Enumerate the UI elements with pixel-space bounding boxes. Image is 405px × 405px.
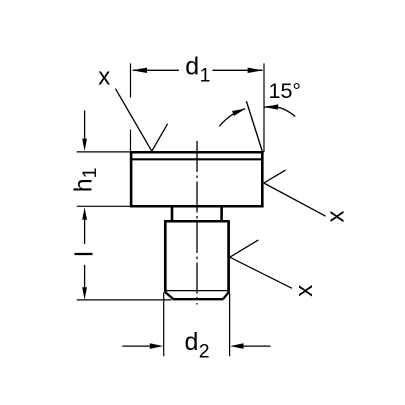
d1 dimension line bbox=[131, 68, 263, 73]
leader right bbox=[264, 183, 326, 216]
thread chamfer left bbox=[165, 292, 173, 299]
d1 extension line left bbox=[130, 63, 132, 150]
d2 extension line right bbox=[229, 293, 231, 356]
thread left edge bbox=[164, 221, 167, 292]
svg-text:1: 1 bbox=[200, 65, 211, 87]
neck left edge bbox=[171, 206, 174, 221]
h1 extension line bottom bbox=[77, 205, 130, 207]
d1 extension line right bbox=[263, 63, 265, 151]
svg-text:x: x bbox=[323, 211, 350, 223]
svg-text:d: d bbox=[185, 52, 199, 80]
svg-text:15°: 15° bbox=[269, 79, 302, 103]
h1 extension line top bbox=[77, 151, 130, 153]
thread runout line bbox=[167, 290, 228, 292]
leader bottom check arm bbox=[230, 240, 259, 257]
leader right check arm bbox=[264, 170, 286, 183]
centerline bbox=[196, 141, 198, 305]
d2 dimension line bbox=[122, 343, 270, 349]
svg-text:x: x bbox=[98, 63, 110, 90]
thread bottom edge bbox=[173, 298, 223, 300]
svg-text:x: x bbox=[291, 285, 318, 297]
thread right edge bbox=[227, 221, 230, 292]
leader bottom bbox=[230, 257, 292, 288]
head left edge bbox=[130, 151, 133, 207]
l extension line bottom bbox=[77, 299, 172, 301]
leader top bbox=[115, 89, 151, 152]
svg-text:2: 2 bbox=[199, 340, 210, 362]
15 deg chamfer construction line bbox=[246, 101, 262, 152]
15 deg arc arrow left bbox=[219, 109, 245, 127]
thread chamfer right bbox=[223, 292, 229, 299]
leader top check arm bbox=[152, 124, 168, 152]
svg-text:d: d bbox=[185, 328, 199, 356]
neck right edge bbox=[220, 206, 223, 221]
thread top edge bbox=[164, 220, 230, 223]
h1 arrow top bbox=[82, 110, 87, 151]
head top edge bbox=[130, 151, 264, 154]
15 deg arc arrow right bbox=[264, 104, 295, 116]
head bottom edge bbox=[130, 205, 264, 208]
head chamfer line bbox=[131, 158, 262, 160]
svg-text:l: l bbox=[71, 251, 99, 257]
head right edge bbox=[261, 151, 264, 207]
l dimension line bbox=[82, 207, 87, 300]
d2 extension line left bbox=[163, 293, 165, 357]
